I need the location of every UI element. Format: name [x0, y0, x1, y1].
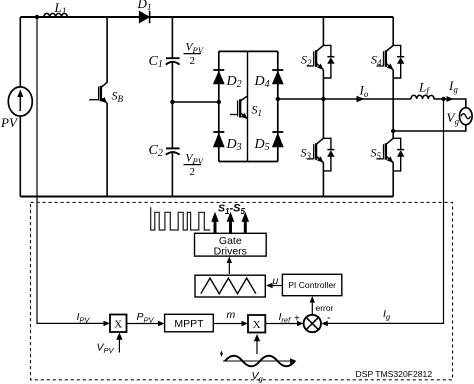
wire SB emitter: [106, 103, 108, 197]
wire bridge right mid to Lf: [278, 98, 411, 100]
transistor S1 (IGBT): [230, 96, 262, 119]
wire capacitor branch middle: [171, 62, 173, 149]
multiplier X2 box: [248, 315, 265, 333]
DSP dashed box: [31, 202, 453, 379]
diode D2: [213, 70, 242, 90]
wire capacitor branch lower: [171, 152, 173, 196]
pulse train waveform: [151, 207, 211, 230]
inductor Lf: [411, 80, 434, 100]
svg-text:u: u: [273, 275, 279, 287]
wire leg1 upper: [322, 17, 324, 46]
label m with arrow into X2: [213, 309, 248, 326]
diode D4: [254, 70, 284, 90]
wire X2 to summing: [266, 323, 298, 325]
svg-text:error: error: [316, 303, 334, 313]
arrow Vg sine into X2: [254, 334, 260, 354]
arrow carrier to gate drivers: [227, 256, 232, 274]
Gate Drivers box: [195, 233, 267, 257]
transistor S4 (IGBT with diode): [371, 45, 404, 78]
transistor S5 (IGBT with diode): [371, 138, 405, 171]
svg-text:Drivers: Drivers: [214, 246, 247, 258]
transistor SB (IGBT): [89, 82, 123, 104]
gate signal arrow 1: [211, 212, 219, 233]
capacitor C1: [149, 54, 180, 70]
wire bridge frame: [219, 51, 278, 161]
svg-text:2: 2: [190, 166, 196, 178]
MPPT box: [165, 314, 214, 332]
wire leg2 middle: [392, 70, 394, 139]
arrow Ig into summing: [321, 321, 328, 326]
diode D1: [137, 0, 152, 23]
wire capacitor branch upper: [171, 17, 173, 58]
node leg2 midpoint: [391, 129, 395, 133]
wire leg2 lower: [392, 163, 394, 197]
wire Lf to Vg: [434, 99, 466, 108]
svg-text:MPPT: MPPT: [174, 318, 204, 330]
wire C midpoint to bridge: [172, 101, 218, 103]
node C midpoint: [170, 100, 174, 104]
wire leg1 middle: [322, 70, 324, 139]
wire S1 branch: [247, 51, 249, 161]
multiplier X1 box: [110, 315, 127, 333]
wire leg2 upper: [392, 17, 394, 46]
wire leg1 lower: [322, 163, 324, 197]
wire SB collector: [106, 17, 108, 83]
svg-text:2: 2: [190, 55, 196, 67]
wire top rail: [20, 16, 393, 18]
svg-text:PV: PV: [0, 115, 19, 130]
summing junction: [304, 315, 321, 332]
node leg1 midpoint: [321, 97, 325, 101]
Vg sine waveform: [220, 351, 297, 384]
voltage source Vg: [447, 108, 473, 127]
wire IPV sense line: [37, 17, 108, 323]
carrier box with triangle wave: [195, 275, 265, 297]
label u with arrow to carrier: [266, 275, 282, 288]
inductor L1: [44, 0, 68, 17]
wire Vg bottom return: [393, 125, 466, 132]
error arrow to PI: [310, 296, 334, 315]
PI Controller box: [282, 274, 341, 295]
transistor S3 (IGBT with diode): [301, 138, 335, 171]
label VPV with arrow into X1: [97, 333, 123, 356]
gate signal arrow 2: [227, 212, 235, 233]
label Io with arrow: [357, 83, 369, 103]
diode D3: [213, 132, 242, 153]
node bridge right mid: [276, 97, 280, 101]
arrow IPV into X1: [104, 321, 111, 326]
node bridge left mid: [217, 100, 221, 104]
capacitor C2: [149, 143, 180, 159]
arrow Iref into summing: [297, 321, 304, 326]
node Ig tap: [441, 97, 445, 101]
svg-text:X: X: [253, 319, 261, 331]
transistor S2 (IGBT with diode): [301, 45, 335, 78]
wire left vertical (PV branch): [19, 17, 21, 197]
svg-text:DSP TMS320F2812: DSP TMS320F2812: [356, 369, 433, 379]
wire Ig sense line: [323, 99, 444, 323]
label VPV/2 upper: [184, 42, 205, 68]
label VPV/2 lower: [184, 153, 205, 179]
svg-text:PI Controller: PI Controller: [288, 280, 336, 290]
label PPV with arrow into MPPT: [127, 311, 165, 326]
wire bottom rail: [20, 196, 393, 198]
svg-text:m: m: [227, 309, 236, 321]
svg-text:X: X: [114, 319, 122, 331]
current source PV: [0, 87, 32, 130]
gate signal arrow 3: [242, 212, 250, 233]
diode D5: [254, 132, 284, 153]
node IPV tap on top rail: [35, 15, 39, 19]
label Ig with arrow (top): [447, 78, 459, 102]
